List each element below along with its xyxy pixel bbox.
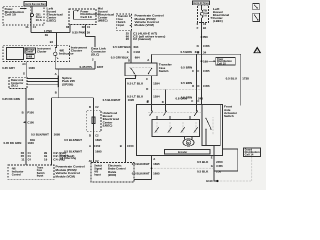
transfer case switch box bbox=[125, 63, 157, 76]
label: Front Axle Actuator Switch bbox=[224, 105, 238, 119]
right feed wire pins: 6 C3 bbox=[197, 22, 207, 104]
pin D2 C1 bbox=[82, 25, 91, 29]
wire 0.35 PNK 39 bbox=[72, 28, 95, 47]
left branch down to PCM bbox=[30, 98, 61, 165]
4WD indicator lamp bbox=[54, 46, 75, 69]
svg-text:B4: B4 bbox=[203, 26, 207, 30]
svg-text:(LBEC): (LBEC) bbox=[47, 19, 57, 23]
note (connector usage) bbox=[60, 156, 77, 161]
wire 0.5 BLK/WHT 1695 bottom lower bbox=[132, 171, 160, 175]
svg-text:C: C bbox=[191, 99, 193, 103]
wire 0.35 GRY 1036 bbox=[2, 66, 35, 70]
message center box bbox=[25, 48, 36, 54]
dashed box: LBEC right fuse bbox=[198, 5, 209, 23]
svg-text:0.35 PNK: 0.35 PNK bbox=[72, 31, 85, 35]
connector C456 upper bbox=[197, 44, 210, 48]
svg-text:0.5 BLK/WHT: 0.5 BLK/WHT bbox=[64, 138, 82, 142]
svg-text:Switch: Switch bbox=[94, 165, 102, 168]
svg-text:Case: Case bbox=[118, 19, 124, 21]
svg-text:B4: B4 bbox=[50, 40, 54, 44]
svg-text:1695: 1695 bbox=[153, 162, 160, 166]
dashed box: Left Bussed Electrical Center (power distribution cell) bbox=[3, 6, 44, 25]
svg-text:1294: 1294 bbox=[153, 81, 160, 85]
svg-text:A: A bbox=[147, 58, 149, 62]
svg-text:Module (VCM): Module (VCM) bbox=[135, 23, 154, 27]
label: PCM/VCM top bbox=[135, 14, 164, 28]
svg-text:Transfer: Transfer bbox=[118, 16, 129, 18]
svg-text:0.5 BLK/WHT: 0.5 BLK/WHT bbox=[31, 132, 49, 136]
svg-text:G: G bbox=[211, 164, 213, 168]
divider between power dist cell and CB compartment bbox=[29, 6, 31, 25]
wire 0.35 DK GRN 1040 (upper) bbox=[2, 89, 34, 166]
svg-text:0.5 BLK/WHT: 0.5 BLK/WHT bbox=[103, 98, 121, 102]
dashed box: UBEC bbox=[87, 110, 101, 132]
svg-text:C150: C150 bbox=[127, 144, 134, 148]
cluster inner screen rect bbox=[7, 47, 24, 59]
svg-text:1695: 1695 bbox=[128, 98, 135, 102]
svg-text:1 PNK: 1 PNK bbox=[44, 29, 52, 33]
svg-text:1695: 1695 bbox=[54, 132, 61, 136]
svg-text:C1: C1 bbox=[33, 25, 37, 29]
pin A3 bbox=[22, 62, 27, 78]
svg-text:0.5 LT BLU: 0.5 LT BLU bbox=[127, 81, 143, 85]
svg-text:Hot At All Times: Hot At All Times bbox=[193, 2, 209, 5]
svg-text:0.35 PPL: 0.35 PPL bbox=[80, 65, 93, 69]
wire 0.5 GRY/BLK 694 lower bbox=[111, 56, 140, 63]
label: Splice Pack 205 bbox=[62, 76, 75, 86]
wire 0.35 PPL 1807 bbox=[55, 65, 103, 76]
selector switch row inside big box bbox=[148, 105, 203, 116]
svg-text:Switch: Switch bbox=[37, 172, 45, 175]
svg-text:E: E bbox=[211, 155, 213, 159]
svg-text:(LBEC): (LBEC) bbox=[213, 19, 223, 23]
pin 4A C1 bbox=[25, 25, 36, 29]
svg-text:1040: 1040 bbox=[27, 97, 34, 101]
svg-text:1807: 1807 bbox=[97, 65, 104, 69]
label bar: transfer case encoder motor bbox=[165, 149, 211, 154]
svg-text:199: 199 bbox=[203, 59, 208, 63]
svg-text:4WD: 4WD bbox=[94, 171, 98, 174]
arrow to cell label bbox=[20, 8, 27, 10]
svg-text:1695: 1695 bbox=[153, 171, 160, 175]
dashed box: transfer case switch input (PCM top) bbox=[116, 14, 131, 30]
svg-text:Input: Input bbox=[94, 174, 101, 177]
connector A C103 bbox=[127, 49, 141, 63]
connector D C103 dotted branch bbox=[146, 87, 201, 91]
svg-text:26: 26 bbox=[126, 37, 130, 41]
PCM pin rows top bbox=[126, 32, 166, 42]
svg-text:D2: D2 bbox=[82, 25, 86, 29]
svg-text:C152: C152 bbox=[94, 144, 101, 148]
inner sub-box: front axle actuator switch bbox=[202, 105, 220, 146]
svg-text:C456: C456 bbox=[203, 84, 210, 88]
dashed box: data link connector lower bbox=[9, 77, 27, 88]
label: PCM/VCM bottom bbox=[56, 165, 85, 179]
svg-text:Center: Center bbox=[26, 51, 34, 54]
label: Instrument Cluster bbox=[71, 45, 87, 52]
svg-text:0.5 BRN: 0.5 BRN bbox=[181, 81, 192, 85]
svg-text:(DLC): (DLC) bbox=[91, 53, 99, 57]
route into EBCM right side bbox=[134, 179, 152, 181]
svg-text:G110: G110 bbox=[206, 179, 213, 183]
dashed box: instrument cluster bbox=[3, 46, 70, 62]
feed line across top bbox=[152, 50, 241, 54]
front axle switch ground wire bbox=[211, 146, 218, 182]
page ref icon 2 bbox=[253, 13, 260, 21]
DLC upper label bbox=[91, 47, 107, 70]
svg-text:C2 (manual): C2 (manual) bbox=[133, 37, 151, 41]
svg-text:C4: C4 bbox=[28, 158, 32, 162]
svg-text:0.35 DK GRN: 0.35 DK GRN bbox=[2, 97, 20, 101]
svg-text:0.5 BLK/WHT: 0.5 BLK/WHT bbox=[132, 171, 150, 175]
splice dot on switch bottom bbox=[135, 75, 137, 77]
svg-text:A: A bbox=[55, 72, 57, 76]
svg-text:C1: C1 bbox=[87, 25, 91, 29]
svg-text:Cluster: Cluster bbox=[37, 50, 47, 53]
svg-text:4WD: 4WD bbox=[12, 167, 16, 170]
svg-text:C: C bbox=[192, 69, 194, 73]
svg-text:Switch: Switch bbox=[224, 114, 234, 118]
pin B4 right bbox=[197, 26, 207, 30]
svg-text:Indicator: Indicator bbox=[12, 170, 24, 173]
splice dot bottom with dotted branch bbox=[151, 167, 213, 169]
PCM pin rows right wire bbox=[44, 151, 74, 162]
svg-text:4A: 4A bbox=[25, 25, 28, 29]
svg-text:C2: C2 bbox=[95, 133, 99, 137]
svg-text:M: M bbox=[187, 141, 189, 145]
header box: Hot At All Times bbox=[193, 1, 210, 5]
svg-text:(MBEC): (MBEC) bbox=[98, 19, 108, 23]
svg-text:Cell 10: Cell 10 bbox=[5, 13, 17, 17]
svg-text:0.8 ORN: 0.8 ORN bbox=[176, 96, 187, 100]
driver box bbox=[26, 55, 34, 59]
pin D C2 lower bbox=[89, 133, 99, 137]
pin rows above big box bbox=[176, 96, 204, 103]
svg-text:B: B bbox=[22, 111, 24, 115]
svg-text:(EBCM): (EBCM) bbox=[108, 174, 116, 177]
connector row C456 lower bbox=[192, 84, 210, 88]
circuit breaker CB symbol bbox=[30, 6, 42, 25]
svg-text:C103: C103 bbox=[134, 50, 141, 54]
svg-text:0.5 BLK/WHT: 0.5 BLK/WHT bbox=[132, 162, 150, 166]
connector P100 bbox=[22, 111, 35, 115]
svg-text:A: A bbox=[89, 144, 91, 148]
svg-text:Cluster: Cluster bbox=[71, 48, 83, 52]
svg-text:PNK: PNK bbox=[203, 35, 208, 39]
encoder motor bbox=[183, 136, 194, 146]
splice pack bus bar bbox=[55, 72, 59, 95]
svg-text:0.5 BLK: 0.5 BLK bbox=[197, 160, 208, 164]
connector A C152 bbox=[89, 144, 101, 148]
connector C100 bbox=[23, 120, 34, 124]
svg-text:Cell 14: Cell 14 bbox=[245, 154, 255, 157]
label: Left Bussed Electrical Center (LBEC) bbox=[47, 7, 63, 23]
svg-text:Module (VCM): Module (VCM) bbox=[56, 174, 75, 178]
wire 0.5 LT BLU 1294 lower bbox=[127, 95, 160, 103]
ground G110 bbox=[206, 179, 218, 183]
svg-text:All Other Eng: All Other Eng bbox=[60, 157, 77, 160]
wire 0.5 BRN down bbox=[181, 54, 197, 104]
svg-text:A: A bbox=[153, 157, 155, 161]
svg-text:0.5 GRY/BLK: 0.5 GRY/BLK bbox=[113, 45, 131, 49]
pin D C2 upper bbox=[89, 105, 99, 109]
ground jog from switch to left chains bbox=[126, 76, 136, 163]
wire 1 PNK from LBEC bbox=[31, 28, 70, 37]
bus inside MBEC bbox=[74, 11, 97, 19]
svg-text:D: D bbox=[89, 133, 91, 137]
pin A6 C2 into EBCM bbox=[89, 159, 99, 163]
svg-text:Hot In Run And Start: Hot In Run And Start bbox=[25, 2, 46, 6]
svg-text:C456: C456 bbox=[216, 164, 223, 168]
svg-text:0.5 BLK: 0.5 BLK bbox=[197, 169, 208, 173]
svg-text:1294: 1294 bbox=[153, 95, 160, 99]
svg-text:0.5 BRN: 0.5 BRN bbox=[181, 66, 192, 70]
svg-text:(DLC): (DLC) bbox=[11, 85, 18, 88]
svg-text:(SP205): (SP205) bbox=[62, 82, 73, 86]
svg-text:341: 341 bbox=[195, 50, 200, 54]
svg-text:0.5 GRY/BLK: 0.5 GRY/BLK bbox=[111, 56, 129, 60]
wire 0.5 BLK 250 bbox=[197, 169, 222, 173]
svg-text:D: D bbox=[89, 105, 91, 109]
wire 0.5 BLK/WHT 1695 mid bbox=[64, 138, 102, 142]
svg-text:Cell 10: Cell 10 bbox=[217, 64, 227, 66]
cluster interior label bbox=[37, 48, 51, 54]
svg-text:2450: 2450 bbox=[216, 160, 223, 164]
big box: transfer case encoder motor assembly bbox=[137, 105, 223, 156]
branch from big box right to ground bbox=[214, 149, 238, 171]
svg-text:0.35 GRY: 0.35 GRY bbox=[2, 66, 15, 70]
svg-text:(UBEC): (UBEC) bbox=[103, 124, 113, 128]
svg-text:0.35 DK GRN: 0.35 DK GRN bbox=[4, 141, 22, 145]
svg-text:Input: Input bbox=[118, 24, 125, 27]
svg-text:1040: 1040 bbox=[27, 141, 34, 145]
svg-text:39: 39 bbox=[45, 33, 49, 37]
splice dot to power distribution cell bbox=[201, 59, 216, 63]
svg-text:D: D bbox=[128, 59, 130, 63]
svg-text:A: A bbox=[127, 50, 129, 54]
svg-text:0.5 BRN: 0.5 BRN bbox=[181, 50, 192, 54]
page ref icon 1 bbox=[253, 4, 259, 10]
svg-text:D: D bbox=[146, 87, 148, 91]
svg-text:D: D bbox=[162, 100, 164, 104]
pin C below switch bbox=[146, 76, 152, 105]
svg-text:10 A: 10 A bbox=[36, 18, 42, 22]
wire 0.5 BLU 1738 bbox=[226, 54, 250, 105]
header box: Hot In Run And Start bbox=[24, 2, 47, 6]
splice dot PNK bbox=[201, 35, 208, 39]
svg-text:B: B bbox=[55, 90, 57, 94]
wire 0.35 DK GRN 1040 (lower) bbox=[4, 141, 35, 145]
svg-text:P100: P100 bbox=[27, 111, 34, 115]
svg-text:C: C bbox=[197, 69, 199, 73]
svg-text:C456: C456 bbox=[203, 44, 210, 48]
label: Mid Bussed Electrical Center (MBEC) bbox=[98, 7, 114, 23]
dashed box: PCM bottom left bbox=[8, 165, 54, 179]
svg-text:D8: D8 bbox=[66, 25, 70, 29]
svg-text:A3: A3 bbox=[22, 62, 26, 66]
svg-text:250: 250 bbox=[216, 169, 221, 173]
svg-text:Encoder: Encoder bbox=[178, 152, 187, 154]
connector B C150 on right ground wire bbox=[120, 144, 134, 148]
three serial data wires to splice pack bbox=[27, 78, 58, 84]
label: Transfer Case Switch bbox=[159, 63, 173, 73]
svg-text:L498: L498 bbox=[27, 55, 33, 58]
svg-text:C2: C2 bbox=[95, 105, 99, 109]
svg-text:39: 39 bbox=[87, 31, 91, 35]
connector G C456 bbox=[211, 164, 223, 168]
svg-text:1695: 1695 bbox=[95, 149, 102, 153]
svg-text:C: C bbox=[146, 77, 148, 81]
warning triangle icon bbox=[253, 47, 261, 54]
wire 0.5 BLK 2450 bbox=[197, 160, 223, 164]
svg-text:19: 19 bbox=[44, 158, 48, 162]
box: Ground Distribution Cell bbox=[244, 148, 261, 157]
splice S434 bbox=[197, 50, 207, 54]
svg-text:C100: C100 bbox=[27, 120, 34, 124]
svg-text:1036: 1036 bbox=[28, 66, 35, 70]
svg-text:0.5 BLU: 0.5 BLU bbox=[226, 76, 237, 80]
svg-text:694: 694 bbox=[134, 45, 139, 49]
svg-text:Input: Input bbox=[37, 174, 44, 177]
wire 0.5 BLK/WHT 1695 bottom upper bbox=[132, 162, 160, 166]
pin A bottom of big box bbox=[152, 156, 156, 180]
wire 0.5 BLK/WHT 1695 lower mid bbox=[64, 149, 102, 153]
svg-text:Signal: Signal bbox=[94, 169, 102, 171]
wire 0.5 LT BLU 1294 upper bbox=[127, 81, 160, 85]
svg-text:C455: C455 bbox=[203, 69, 210, 73]
label: LBEC right bbox=[210, 7, 229, 23]
svg-text:B: B bbox=[147, 100, 149, 104]
connector row C455 bbox=[192, 69, 210, 73]
svg-text:34: 34 bbox=[203, 50, 207, 54]
svg-text:F: F bbox=[197, 26, 199, 30]
svg-text:11: 11 bbox=[21, 158, 25, 162]
wire down to B4 bbox=[50, 33, 57, 46]
svg-text:Switch: Switch bbox=[118, 21, 126, 24]
svg-text:694: 694 bbox=[135, 56, 140, 60]
svg-text:B: B bbox=[120, 144, 122, 148]
encoder inner box bbox=[152, 116, 200, 137]
label: UBEC bbox=[103, 111, 119, 128]
pin D8 bbox=[66, 25, 70, 33]
ground chain UBEC wire bbox=[93, 98, 134, 163]
wire 0.5 GRY/BLK 694 upper bbox=[113, 30, 139, 49]
big box top pins B D C bbox=[147, 89, 166, 104]
svg-text:1738: 1738 bbox=[242, 76, 249, 80]
svg-text:N: N bbox=[197, 44, 199, 48]
svg-text:Cell 10: Cell 10 bbox=[80, 15, 92, 19]
label: EBCM bbox=[108, 165, 126, 178]
svg-text:Control: Control bbox=[12, 173, 21, 176]
arrow in MBEC box bbox=[74, 10, 80, 12]
PCM pin rows left wire bbox=[21, 151, 31, 162]
svg-text:1695: 1695 bbox=[95, 138, 102, 142]
ground bus from splice pack bbox=[52, 87, 94, 98]
svg-text:243: 243 bbox=[198, 96, 203, 100]
pin A up to feed line bbox=[147, 54, 151, 63]
dashed link to ground distribution cell bbox=[219, 157, 252, 182]
dashed box: EBCM bbox=[91, 163, 134, 183]
svg-text:0.5 BLK/WHT: 0.5 BLK/WHT bbox=[64, 149, 82, 153]
box: Power Distribution Cell 10 bbox=[216, 57, 236, 65]
dashed box: MBEC power distribution bbox=[69, 9, 100, 25]
svg-text:Switch: Switch bbox=[159, 69, 169, 73]
svg-text:5 A: 5 A bbox=[203, 14, 207, 17]
svg-text:G: G bbox=[23, 72, 25, 76]
